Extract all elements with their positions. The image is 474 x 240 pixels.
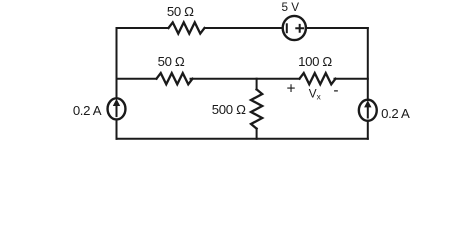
resistor 50ohm middle — [157, 73, 193, 84]
wire middle-left horizontal — [117, 78, 157, 80]
svg-text:0.2 A: 0.2 A — [381, 106, 410, 121]
svg-text:0.2 A: 0.2 A — [73, 103, 102, 118]
wire middle-center horizontal — [191, 78, 300, 80]
svg-text:+: + — [286, 81, 295, 98]
resistor 50ohm top — [169, 22, 205, 33]
current source I1 left 0.2A — [108, 98, 126, 119]
wire middle vertical stub bottom — [256, 129, 258, 139]
wire bottom horizontal — [117, 138, 368, 140]
voltage source V1 5V — [283, 16, 306, 40]
current source I1 arrow — [113, 99, 120, 117]
voltage source minus bar — [286, 24, 288, 32]
svg-text:-: - — [333, 82, 338, 99]
current source I2 arrow — [364, 100, 371, 118]
wire left vertical upper — [116, 28, 118, 98]
svg-text:500 Ω: 500 Ω — [212, 102, 246, 117]
svg-text:5 V: 5 V — [282, 1, 300, 14]
wire right vertical upper — [367, 28, 369, 100]
svg-text:50 Ω: 50 Ω — [158, 54, 185, 69]
current source I2 right 0.2A — [359, 100, 377, 121]
resistor 100ohm — [300, 73, 336, 84]
svg-text:50 Ω: 50 Ω — [167, 4, 194, 19]
voltage source plus sign — [296, 25, 303, 32]
wire left vertical lower — [116, 120, 118, 139]
wire right vertical lower — [367, 121, 369, 139]
resistor 500ohm vertical — [251, 89, 262, 128]
wire top-middle horizontal — [205, 27, 282, 29]
wire middle-right horizontal — [335, 78, 368, 80]
svg-text:100 Ω: 100 Ω — [298, 54, 332, 69]
wire middle vertical stub top — [256, 79, 258, 90]
wire top-right horizontal — [307, 27, 368, 29]
wire top-left horizontal — [117, 27, 169, 29]
